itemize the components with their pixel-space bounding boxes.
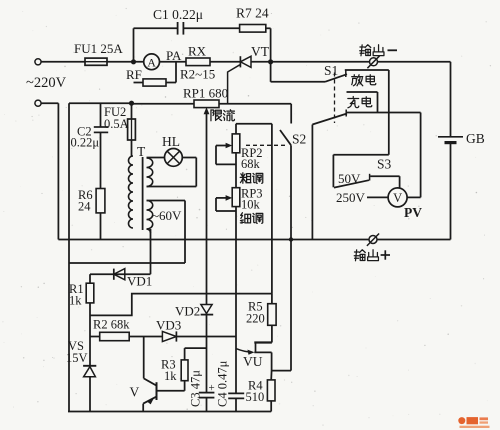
svg-text:C3 47μ: C3 47μ [189, 370, 203, 407]
svg-text:~60V: ~60V [152, 208, 182, 223]
svg-text:220: 220 [246, 312, 265, 326]
svg-text:~220V: ~220V [26, 75, 67, 91]
svg-text:FU1 25A: FU1 25A [74, 41, 123, 56]
svg-text:T: T [137, 144, 146, 159]
svg-text:0.5A: 0.5A [104, 117, 129, 131]
svg-text:A: A [147, 55, 156, 69]
svg-text:PV: PV [404, 205, 422, 220]
svg-text:C1 0.22μ: C1 0.22μ [153, 7, 203, 22]
svg-text:R2 68k: R2 68k [93, 318, 130, 332]
svg-text:R7 24: R7 24 [236, 6, 269, 21]
svg-text:RF: RF [126, 67, 142, 82]
svg-text:S3: S3 [377, 157, 392, 172]
svg-text:R2~15: R2~15 [180, 67, 215, 82]
svg-text:VD2: VD2 [175, 304, 200, 319]
svg-text:15V: 15V [66, 351, 88, 365]
svg-text:V: V [130, 385, 140, 400]
svg-text:24: 24 [78, 200, 91, 214]
svg-text:S2: S2 [292, 132, 306, 147]
svg-text:+: + [209, 382, 215, 394]
svg-text:V: V [393, 191, 402, 205]
svg-text:HL: HL [162, 134, 180, 149]
svg-text:PA: PA [166, 48, 182, 63]
svg-text:VT: VT [251, 44, 270, 59]
svg-text:VD3: VD3 [156, 318, 181, 333]
svg-text:1k: 1k [164, 369, 177, 383]
svg-text:GB: GB [466, 131, 485, 146]
svg-text:10k: 10k [241, 198, 261, 212]
svg-text:S1: S1 [324, 63, 338, 78]
svg-text:0.22μ: 0.22μ [71, 136, 100, 150]
svg-text:VD1: VD1 [127, 274, 152, 289]
svg-text:RP1 680: RP1 680 [183, 86, 228, 101]
svg-text:C4 0.47μ: C4 0.47μ [216, 360, 230, 407]
svg-text:VU: VU [243, 354, 263, 369]
svg-text:1k: 1k [69, 294, 82, 308]
svg-text:68k: 68k [241, 157, 261, 171]
svg-text:510: 510 [246, 390, 265, 404]
svg-text:RX: RX [188, 44, 207, 59]
svg-text:250V: 250V [336, 190, 366, 205]
svg-text:50V: 50V [338, 171, 361, 186]
